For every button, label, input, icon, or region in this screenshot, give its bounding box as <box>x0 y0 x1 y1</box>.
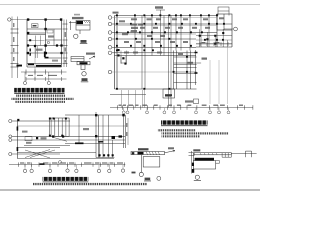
wall horizontal y58 <box>46 57 62 59</box>
grid bubble row1 <box>9 119 12 122</box>
note2 line 3 <box>162 135 201 137</box>
right dim vertical x195.5 <box>195 50 197 85</box>
right dim black ticks <box>195 53 198 74</box>
columns drawing2 top band <box>116 14 225 89</box>
hatched bay verticals <box>51 118 66 136</box>
detail B stem <box>81 65 85 70</box>
wall horizontal y53 <box>27 52 62 54</box>
gridline y24 <box>112 23 232 25</box>
detail B flange fill <box>80 62 88 64</box>
detail A bubble <box>74 34 78 38</box>
gridline y32.5 <box>112 32 217 34</box>
gridline y154 <box>11 153 60 155</box>
wall bottom y89 <box>115 88 197 90</box>
wall horizontal y63.5 <box>27 63 62 65</box>
vertical grid x181 <box>180 16 182 51</box>
bubble leaders <box>25 72 49 81</box>
stair diagonal arrow <box>52 137 67 141</box>
vertical grid x160 <box>160 16 162 56</box>
wall top <box>27 19 62 21</box>
wall vertical x54 <box>53 29 55 46</box>
note line 3 <box>15 101 65 103</box>
detail B caption text <box>86 53 95 55</box>
top page border line <box>0 4 260 6</box>
wall mid vertical <box>45 20 47 59</box>
vertical grid x135 <box>134 16 136 56</box>
wall horizontal y45.5 <box>27 45 62 47</box>
bottom dimension line drawing3 <box>9 164 125 166</box>
small text labels drawing2 <box>119 17 224 102</box>
bottom grid bubble 1 <box>23 81 26 84</box>
section mark box <box>194 99 199 104</box>
wall right upper <box>216 14 218 47</box>
vertical grid x201 <box>200 16 202 48</box>
lower ledge line y94.7 <box>110 94 146 96</box>
bottom dim ticks <box>26 70 62 75</box>
bottom dim text drawing3 <box>20 162 123 164</box>
vertical wall x143.5 double long <box>142 16 145 90</box>
detail3 bar hatch <box>146 152 160 155</box>
plan corner text <box>113 12 119 14</box>
beam end black <box>17 65 23 67</box>
detail4 end ticks <box>246 151 252 157</box>
grid bubble A-left <box>8 18 11 21</box>
vertical wall x169.5 double long <box>169 16 172 108</box>
stair flight verticals upper <box>36 36 41 46</box>
gridline y39 <box>112 38 196 40</box>
bottom-right dim line y44 <box>196 43 232 45</box>
small mark left of detail3 <box>132 172 136 174</box>
right-lower horizontals <box>174 57 202 83</box>
title2 underline <box>161 124 208 127</box>
note line 1 <box>16 95 65 97</box>
note3 long line <box>33 183 147 185</box>
plan bottom bump <box>163 89 175 98</box>
detail4 outline box <box>193 161 215 169</box>
detail3 lower box <box>143 157 160 167</box>
gridline y136 <box>12 135 126 137</box>
detail4 bubble <box>195 175 199 179</box>
interior section circle <box>59 161 62 164</box>
wall left <box>26 20 28 68</box>
top-right riser box <box>218 7 229 16</box>
small stair below wall <box>121 56 126 64</box>
leg x99.5 <box>99 142 101 158</box>
gridline y46 <box>112 46 196 48</box>
detail4 left leader vertical <box>191 151 193 174</box>
detail A dim arrow <box>69 21 76 30</box>
bottom dim ticks drawing2 <box>117 105 253 110</box>
detail4 bar hatch <box>200 153 217 155</box>
detail3 bubble <box>139 172 143 176</box>
detail3 caption <box>138 148 149 150</box>
grid bubble row2 <box>9 135 12 138</box>
hatched bay box <box>49 118 69 136</box>
detail4 left edge <box>192 153 194 169</box>
right dim text blobs <box>64 32 66 63</box>
title 1 : first floor masonry structure plan <box>14 88 64 94</box>
left wall black segment <box>16 127 18 152</box>
title 2 : second floor masonry structure plan <box>161 120 208 126</box>
right-lower double wall b <box>187 51 191 90</box>
title3 underline <box>43 181 89 184</box>
extension right wall lower <box>231 30 233 47</box>
detail B label <box>81 78 89 82</box>
detail3 leader arrow <box>165 150 176 153</box>
bottom dim text blobs <box>28 74 57 76</box>
right section dots <box>199 32 225 45</box>
note line 2 <box>12 98 74 100</box>
right section inner horizontals <box>196 36 232 44</box>
wing bottom legs line <box>96 157 114 159</box>
interior box label <box>47 30 53 33</box>
beam dash marks left bay <box>29 49 31 56</box>
wing vertical x103 <box>102 115 104 158</box>
hatched bay dots <box>49 118 67 137</box>
bubble leaders drawing3 <box>25 165 123 169</box>
bottom black dash <box>45 57 49 59</box>
detail3 leader text <box>168 147 174 149</box>
interior text label 2 <box>48 35 54 37</box>
wall horizontal y40 <box>46 39 62 41</box>
dim extension line top-left <box>11 19 27 21</box>
right dim text <box>202 58 208 60</box>
wing bottom y143.5 <box>65 143 125 145</box>
title 3 : second floor beam structure plan <box>43 177 89 182</box>
extension inner vertical <box>223 14 225 30</box>
wall horizontal y67 <box>27 66 62 68</box>
wall horizontal y33 double <box>27 33 46 35</box>
second dim line drawing1 <box>26 78 67 80</box>
columns drawing3 <box>17 114 125 139</box>
gridline y72 faint <box>112 71 173 73</box>
left edge dots and stubs <box>118 49 127 65</box>
stair diagonals <box>25 150 55 159</box>
leg end dots <box>99 154 114 156</box>
interior text label 4 <box>52 60 58 62</box>
wall top main <box>115 15 218 17</box>
stair flight verticals lower <box>36 46 38 58</box>
left grid bubbles drawing2 <box>108 16 112 74</box>
detail B leader arrow <box>89 56 95 59</box>
wing vertical x79 <box>78 115 80 144</box>
title1 underline <box>14 92 64 95</box>
beam bars bottom of drawing1 <box>28 64 61 65</box>
long faint verticals to lower dims <box>210 47 228 104</box>
body bottom y145.4 <box>24 144 70 146</box>
gridline y119.8 <box>12 120 70 122</box>
grid bubble row3 <box>9 139 12 142</box>
small interior circle <box>47 41 49 43</box>
bottom dim ticks drawing3 <box>18 162 124 166</box>
wing right dim strip <box>127 118 128 145</box>
wing top dark dash <box>98 141 103 143</box>
gridline y34 <box>115 33 197 35</box>
grid bubble row4 <box>9 152 12 155</box>
detail4 caption text <box>193 149 200 151</box>
vertical grid x152 <box>151 16 153 56</box>
wall horizontal y40.5 left <box>27 40 45 42</box>
detail A caption text <box>72 17 84 19</box>
second dim ticks <box>26 77 62 81</box>
extension bubble line <box>224 28 233 30</box>
note2 line 2 <box>162 132 229 134</box>
bottom grid bubbles drawing2 <box>122 111 230 114</box>
leader vertical x35 <box>34 46 36 80</box>
bottom dim black dash <box>40 163 45 165</box>
wall horizontal y29 <box>27 28 62 30</box>
right-lower double wall a <box>174 51 177 90</box>
wing vertical x108.5 <box>108 115 110 158</box>
vertical grid x176 <box>175 16 177 51</box>
detail A leader <box>79 30 81 34</box>
gridline y55.5 <box>115 55 197 57</box>
beam bar drawing3 <box>75 142 84 144</box>
bottom dim text drawing2 <box>119 104 244 106</box>
detail4 left leader ticks <box>189 153 195 156</box>
detail3 label circle mark <box>157 176 161 180</box>
detail3 top bar <box>131 152 165 155</box>
grid bubble right <box>234 27 238 31</box>
right dim ticks <box>63 24 68 64</box>
left wall x18.3 <box>16 121 18 159</box>
gridline y139.6 <box>12 139 126 141</box>
detail B top box <box>71 57 84 62</box>
wing vertical x114.4 <box>112 140 114 158</box>
interior text label 3 <box>36 49 43 51</box>
gridline y40 right section <box>196 39 232 41</box>
detail4 box step <box>216 161 220 164</box>
interior text label 1 <box>32 24 39 28</box>
top-right extension box <box>217 14 232 30</box>
top leader text <box>155 6 163 8</box>
bottom-right section bottom line <box>196 46 232 48</box>
vertical grid x164 <box>163 16 165 56</box>
gridline y50.5 <box>112 52 196 54</box>
bubble leaders drawing2 <box>121 89 228 111</box>
detail4 slab line extension <box>231 153 256 155</box>
room label box 1 <box>25 137 32 141</box>
bottom dimension line drawing1 <box>21 71 67 73</box>
mid wall black segment <box>44 52 46 58</box>
right section inner verticals <box>200 29 228 47</box>
detail A hatch <box>84 21 90 23</box>
detail4 label underline <box>194 179 201 182</box>
note2 line 1 <box>158 129 196 131</box>
vertical grid x190 <box>189 16 191 51</box>
detail4 top slab bar <box>194 153 231 155</box>
gridline y126 <box>17 125 125 127</box>
wing double wall x123-125 <box>123 115 125 148</box>
detail4 black bar <box>195 158 214 161</box>
bottom grid bubble 2 <box>47 81 50 84</box>
gridline y17.5 <box>112 17 217 19</box>
detail A inner line <box>76 24 90 26</box>
room label text 2 <box>41 137 47 139</box>
bottom grid bubbles drawing3 <box>23 169 124 173</box>
room label text 1 <box>26 142 32 144</box>
wall left double <box>115 16 118 90</box>
detail4 left black marks <box>192 163 194 166</box>
detail A fill <box>76 21 83 24</box>
left dimension line 2 <box>17 17 19 79</box>
detail B bubble <box>82 72 86 76</box>
detail3 left leader <box>140 155 142 173</box>
left dim ticks <box>11 29 19 67</box>
right dimension lines <box>63 20 68 68</box>
room label text 3 <box>83 128 89 130</box>
bottom-right dim text <box>202 42 220 44</box>
detail B flange <box>77 62 90 65</box>
detail B inner line <box>71 58 84 60</box>
left dimension line 1 <box>11 17 13 79</box>
columns drawing1 <box>27 18 63 54</box>
detail4 right compartments <box>222 153 231 158</box>
gridline y25.5 <box>115 25 218 27</box>
bottom page border line <box>0 189 260 191</box>
detail3 label <box>144 178 151 182</box>
stair region lines <box>17 148 114 159</box>
top leader mark <box>156 10 165 16</box>
wing double wall x96-98.5 <box>96 112 99 158</box>
detail A label <box>80 40 88 44</box>
wall right <box>61 20 63 68</box>
room label text 4 <box>22 131 28 133</box>
bottom-right dim ticks <box>200 42 228 46</box>
detail A box <box>76 21 90 31</box>
vertical grid x209 <box>208 16 210 48</box>
bottom dimension line drawing2 <box>110 107 253 109</box>
top edge right part y115 <box>65 114 125 116</box>
detail3 black fill <box>138 152 144 154</box>
left dim text blobs <box>13 23 15 61</box>
